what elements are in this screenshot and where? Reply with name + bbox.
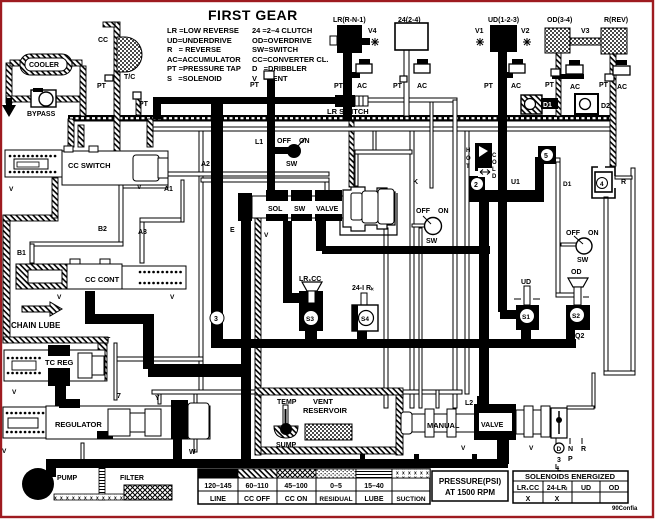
svg-text:3: 3 xyxy=(557,457,561,464)
wire main thin trunk xyxy=(153,127,616,131)
svg-text:SOLENOIDS ENERGIZED: SOLENOIDS ENERGIZED xyxy=(525,472,616,481)
svg-text:OD(3-4): OD(3-4) xyxy=(547,17,572,24)
wire manual valve right outline xyxy=(567,406,594,409)
svg-text:VENT: VENT xyxy=(313,397,333,406)
svg-text:2: 2 xyxy=(474,182,478,189)
circle 3 dribbler xyxy=(210,311,224,325)
svg-text:V: V xyxy=(12,389,17,396)
switch SW1 on xyxy=(250,82,310,168)
svg-text:D2: D2 xyxy=(601,103,610,110)
svg-text:D: D xyxy=(492,174,497,180)
svg-text:LR =LOW REVERSE: LR =LOW REVERSE xyxy=(167,26,239,35)
svg-text:L1: L1 xyxy=(255,139,263,146)
svg-text:CC OFF: CC OFF xyxy=(244,496,271,503)
wire sol valve hatched drop xyxy=(255,210,261,388)
svg-text:COOLER: COOLER xyxy=(29,62,59,69)
svg-text:4: 4 xyxy=(600,181,604,188)
svg-text:ON: ON xyxy=(438,208,449,215)
svg-text:CC ON: CC ON xyxy=(285,496,308,503)
svg-text:PT: PT xyxy=(545,82,555,89)
svg-text:S3: S3 xyxy=(306,316,314,323)
svg-text:PT: PT xyxy=(97,83,107,90)
svg-text:5: 5 xyxy=(544,153,548,160)
wire circle5 to riser link xyxy=(549,158,560,162)
svg-text:CC CONT: CC CONT xyxy=(85,275,120,284)
wire OD funnel riser xyxy=(556,160,560,296)
svg-text:V4: V4 xyxy=(368,28,377,35)
thick CC CONT drop xyxy=(85,291,95,318)
svg-text:PRESSURE(PSI): PRESSURE(PSI) xyxy=(439,477,502,486)
valve SOL SW VALVE assembly xyxy=(230,187,397,239)
swatch SUCTION x xyxy=(392,469,430,478)
wire Y W long horizontal xyxy=(152,390,462,394)
svg-text:K: K xyxy=(413,179,418,186)
svg-text:VALVE: VALVE xyxy=(316,206,339,213)
thick S1 drop xyxy=(521,328,531,341)
wire cooler right drop xyxy=(80,66,86,116)
wire A1 jog horizontal xyxy=(119,184,168,188)
thick S2 drop xyxy=(566,328,575,341)
wire R loop bottom xyxy=(604,371,635,375)
thick LR sol line xyxy=(343,52,352,121)
svg-text:FIRST GEAR: FIRST GEAR xyxy=(208,7,298,23)
wire Y drop xyxy=(158,394,161,404)
wire A2 junction horizontal xyxy=(117,357,203,361)
svg-text:LR(R-N-1): LR(R-N-1) xyxy=(333,17,366,24)
wire bypass horizontal xyxy=(6,96,82,102)
svg-text:PT: PT xyxy=(393,83,403,90)
svg-text:V: V xyxy=(529,445,534,452)
svg-text:UD(1-2-3): UD(1-2-3) xyxy=(488,17,519,24)
svg-text:AC: AC xyxy=(570,84,580,91)
node labels xyxy=(98,161,560,471)
swatch CC ON checker xyxy=(277,469,316,478)
svg-text:B1: B1 xyxy=(17,250,26,257)
thick CC CONT horizontal xyxy=(85,314,154,324)
wire A1 long horizontal xyxy=(154,172,329,176)
thick valve block stub xyxy=(497,438,509,464)
solenoid S3 with funnel xyxy=(299,276,323,331)
pressure psi box xyxy=(432,471,508,501)
svg-text:S4: S4 xyxy=(361,316,369,323)
svg-text:SW: SW xyxy=(286,161,298,168)
thick H3 horizontal xyxy=(213,339,576,348)
svg-text:3: 3 xyxy=(214,316,218,323)
wire B1 drop xyxy=(30,244,34,263)
svg-text:V: V xyxy=(461,445,466,452)
svg-text:SW=SWITCH: SW=SWITCH xyxy=(252,45,298,54)
svg-text:TC REG: TC REG xyxy=(45,358,74,367)
svg-text:SW: SW xyxy=(577,257,589,264)
torque converter xyxy=(97,37,149,108)
accumulator AC under UD xyxy=(484,59,525,90)
solenoid S4 xyxy=(352,285,378,331)
wire cooler left drop xyxy=(6,63,12,103)
svg-text:PT: PT xyxy=(250,82,260,89)
wire A2 vertical xyxy=(199,131,203,390)
svg-text:VALVE: VALVE xyxy=(481,422,504,429)
svg-text:ON: ON xyxy=(588,230,599,237)
valve CC CONT xyxy=(16,250,186,301)
svg-text:OD=OVERDRIVE: OD=OVERDRIVE xyxy=(252,36,312,45)
svg-text:N: N xyxy=(568,446,573,453)
wire B2 vertical xyxy=(119,184,123,245)
svg-text:PT: PT xyxy=(484,83,494,90)
svg-text:0–5: 0–5 xyxy=(330,483,342,490)
svg-text:15–40: 15–40 xyxy=(364,483,384,490)
svg-text:V2: V2 xyxy=(521,28,530,35)
svg-text:S =SOLENOID: S =SOLENOID xyxy=(167,74,222,83)
wire cc signal to sol valve xyxy=(349,121,354,187)
svg-text:D1: D1 xyxy=(563,181,572,188)
wire 7 vertical xyxy=(114,343,117,400)
cooler return arrow xyxy=(2,98,16,117)
gear position letters xyxy=(554,443,586,473)
thick TCREG to REG link xyxy=(55,378,66,406)
svg-text:SW: SW xyxy=(426,238,438,245)
clutch R dotted box xyxy=(601,28,627,54)
wire regulator vent stub xyxy=(81,443,84,460)
svg-text:D =DRIBBLER: D =DRIBBLER xyxy=(252,64,307,73)
wire OD funnel link xyxy=(556,293,576,297)
wire cc loop left vertical xyxy=(3,218,10,340)
wire tc line top cap xyxy=(103,22,115,27)
wire cc switch top drop xyxy=(147,119,153,147)
bypass valve xyxy=(27,88,56,118)
svg-text:45–100: 45–100 xyxy=(284,483,307,490)
trunk nub c xyxy=(472,454,477,460)
svg-text:CC SWITCH: CC SWITCH xyxy=(68,161,111,170)
circle 5 xyxy=(538,146,556,164)
svg-text:OD: OD xyxy=(609,485,620,492)
svg-text:A3: A3 xyxy=(138,229,147,236)
wire UD corridor vertical xyxy=(453,100,457,408)
dribbler D1 xyxy=(521,95,558,114)
wire A3 vertical xyxy=(140,218,144,263)
thick bar1 left stub xyxy=(153,97,161,119)
thick CC CONT drop2 xyxy=(143,314,154,369)
wire manual stub xyxy=(436,390,439,408)
wire K box left xyxy=(430,102,433,188)
circle 4 box xyxy=(592,167,626,198)
PT notch on L1 riser xyxy=(264,71,274,79)
wire LR switch out xyxy=(368,98,457,102)
wire SW3 link xyxy=(561,243,577,246)
wire valve feed jog c xyxy=(355,154,358,186)
LR switch black box xyxy=(327,95,369,116)
svg-text:V3: V3 xyxy=(581,28,590,35)
valve MANUAL xyxy=(401,404,582,452)
svg-text:24-I Rₖ: 24-I Rₖ xyxy=(352,285,374,292)
thick H2 horizontal xyxy=(322,246,490,254)
svg-text:V: V xyxy=(170,294,175,301)
svg-text:24 =2–4 CLUTCH: 24 =2–4 CLUTCH xyxy=(252,26,312,35)
reservoir enclosure xyxy=(255,388,403,455)
circle 2 xyxy=(469,176,485,193)
thick A-line vertical xyxy=(479,196,489,408)
svg-text:S2: S2 xyxy=(572,313,580,320)
svg-text:W: W xyxy=(189,449,196,456)
switch SW3 off xyxy=(566,230,599,264)
svg-text:7: 7 xyxy=(117,393,121,400)
thick U1 bottom link xyxy=(469,190,543,202)
thick L1 vertical with PT top xyxy=(267,79,275,194)
wire T drop to TC REG xyxy=(98,343,107,381)
svg-text:V: V xyxy=(2,448,7,455)
accumulator AC under R xyxy=(599,60,630,91)
thick SW1 stub xyxy=(274,147,290,154)
wire cooler stub right xyxy=(69,60,82,66)
wire A1 valve drop xyxy=(325,182,329,192)
svg-text:SOL: SOL xyxy=(268,206,283,213)
swatch LINE solid xyxy=(198,469,238,478)
svg-text:U1: U1 xyxy=(511,179,520,186)
wire valve feed jog b xyxy=(355,150,412,154)
pt notch on tc line xyxy=(105,75,113,81)
svg-text:PUMP: PUMP xyxy=(57,475,78,482)
accumulator AC under LR xyxy=(334,59,372,90)
swatch RESIDUAL dots xyxy=(316,469,356,478)
svg-text:MANUAL: MANUAL xyxy=(427,421,460,430)
svg-text:AT 1500 RPM: AT 1500 RPM xyxy=(445,488,495,497)
solenoid UD black box xyxy=(475,25,531,52)
svg-text:60–110: 60–110 xyxy=(246,483,269,490)
svg-text:S1: S1 xyxy=(522,314,530,321)
svg-text:LR SWITCH: LR SWITCH xyxy=(327,107,369,116)
wire cc switch bottom drop xyxy=(52,178,58,218)
svg-text:OFF: OFF xyxy=(416,208,431,215)
thick bar1 horizontal xyxy=(153,97,337,104)
svg-text:E: E xyxy=(230,227,235,234)
svg-text:CC: CC xyxy=(98,37,108,44)
svg-text:OD: OD xyxy=(571,269,582,276)
svg-text:A2: A2 xyxy=(201,161,210,168)
valve REGULATOR xyxy=(2,399,210,463)
svg-text:RESIDUAL: RESIDUAL xyxy=(319,496,352,503)
thick S3 feed vertical xyxy=(283,221,292,303)
svg-text:O: O xyxy=(492,160,497,166)
wire cooler stub left xyxy=(10,60,22,66)
wire valve drop b xyxy=(419,228,422,408)
pump xyxy=(22,468,78,500)
svg-text:LR₁CC: LR₁CC xyxy=(517,485,539,492)
valve TC REG xyxy=(4,345,105,396)
svg-text:R: R xyxy=(621,179,626,186)
thick pump link xyxy=(46,459,56,477)
thick L2 stub xyxy=(477,396,486,410)
accumulator AC under 24 xyxy=(393,59,430,90)
wire lube drop to filter xyxy=(99,466,105,500)
table row labels xyxy=(210,496,426,503)
wire R loop right vertical xyxy=(631,168,635,375)
thick S4 drop xyxy=(357,328,367,341)
wire circle4 link xyxy=(615,176,632,179)
svg-text:UD=UNDERDRIVE: UD=UNDERDRIVE xyxy=(167,36,232,45)
svg-text:PT: PT xyxy=(334,83,344,90)
filter xyxy=(120,475,172,500)
svg-text:AC: AC xyxy=(511,83,521,90)
wire W drop xyxy=(194,394,197,452)
thermal valve U1 xyxy=(466,143,572,188)
thick bottom trunk xyxy=(54,459,508,468)
solenoid S1 xyxy=(514,279,540,330)
swatch CC OFF diagonal xyxy=(238,469,277,478)
svg-text:L: L xyxy=(555,464,560,471)
svg-text:V: V xyxy=(264,232,269,239)
temp sump thermometer xyxy=(274,399,298,449)
svg-text:R = REVERSE: R = REVERSE xyxy=(167,45,221,54)
svg-text:120–145: 120–145 xyxy=(204,483,231,490)
thick H2 valve corner xyxy=(316,221,326,251)
svg-text:Y: Y xyxy=(155,395,160,402)
svg-text:T: T xyxy=(466,164,470,170)
wire B1 horizontal xyxy=(30,242,123,246)
trunk nub a xyxy=(360,454,365,460)
thick S1 corner xyxy=(500,310,518,319)
wire cc switch feed b xyxy=(78,125,84,147)
svg-text:AC: AC xyxy=(417,83,427,90)
svg-text:V1: V1 xyxy=(475,28,484,35)
svg-text:X: X xyxy=(526,496,531,503)
svg-text:OFF: OFF xyxy=(566,230,581,237)
svg-text:B2: B2 xyxy=(98,226,107,233)
thick S3 drop xyxy=(305,328,317,341)
wire A1 long horizontal b xyxy=(201,178,329,182)
table row pressures xyxy=(204,483,383,490)
svg-text:SUCTION: SUCTION xyxy=(396,496,426,503)
svg-text:PT =PRESSURE TAP: PT =PRESSURE TAP xyxy=(167,64,241,73)
svg-text:FILTER: FILTER xyxy=(120,475,144,482)
svg-text:CC=CONVERTER CL.: CC=CONVERTER CL. xyxy=(252,55,328,64)
thick S3 feed horizontal xyxy=(283,293,303,303)
wire SW2 link xyxy=(412,224,426,227)
svg-text:AC=ACCUMULATOR: AC=ACCUMULATOR xyxy=(167,55,241,64)
wire cc loop horiz to switch xyxy=(3,215,58,221)
svg-text:H: H xyxy=(466,148,470,154)
svg-text:UD: UD xyxy=(581,485,591,492)
pt notch right on tc line xyxy=(136,99,141,115)
svg-text:C: C xyxy=(492,153,497,159)
wire tc line vertical xyxy=(114,22,120,182)
wire K vertical xyxy=(410,131,414,408)
wire A1 drop xyxy=(164,168,168,186)
wire cc switch feed a xyxy=(68,119,74,147)
svg-text:T/C: T/C xyxy=(124,74,135,81)
wire valve feed jog a xyxy=(373,131,376,152)
svg-text:D: D xyxy=(557,446,562,453)
dribbler D2 xyxy=(575,94,610,114)
svg-text:LUBE: LUBE xyxy=(364,496,383,503)
svg-text:R(REV): R(REV) xyxy=(604,17,628,24)
solenoids energized table xyxy=(513,471,628,503)
thick UD sol line xyxy=(498,52,507,312)
svg-text:A1: A1 xyxy=(164,186,173,193)
svg-text:V: V xyxy=(57,294,62,301)
svg-text:Q2: Q2 xyxy=(575,333,584,340)
svg-text:UD: UD xyxy=(521,279,531,286)
svg-text:CHAIN LUBE: CHAIN LUBE xyxy=(11,321,61,330)
swatch LUBE lines xyxy=(356,469,392,478)
svg-text:AC: AC xyxy=(617,84,627,91)
svg-text:V: V xyxy=(9,186,14,193)
cooler body xyxy=(20,54,72,75)
wire converter trunk hatched xyxy=(68,115,616,122)
svg-text:L: L xyxy=(492,167,496,173)
svg-text:L2: L2 xyxy=(465,400,473,407)
svg-text:LINE: LINE xyxy=(210,496,226,503)
solenoid LR black box xyxy=(330,25,379,53)
svg-text:V: V xyxy=(137,184,142,191)
svg-text:R: R xyxy=(581,446,586,453)
wire suction line xyxy=(54,494,124,500)
wire R loop left vertical xyxy=(604,197,608,375)
svg-text:24-LRₗ: 24-LRₗ xyxy=(547,485,568,492)
thick E line vertical xyxy=(241,221,251,468)
pressure legend table grid xyxy=(198,469,430,504)
svg-text:REGULATOR: REGULATOR xyxy=(55,420,102,429)
svg-text:P: P xyxy=(568,456,573,463)
valve CC SWITCH xyxy=(5,146,168,193)
clutch OD dotted box xyxy=(545,28,601,53)
svg-text:90Confia: 90Confia xyxy=(612,506,638,512)
svg-text:T: T xyxy=(106,337,111,344)
svg-text:RESERVOIR: RESERVOIR xyxy=(303,406,348,415)
svg-text:D1: D1 xyxy=(543,102,552,109)
trunk nub b xyxy=(414,454,419,460)
wire corridor b vertical xyxy=(465,131,469,394)
wire R dotted vertical xyxy=(610,54,616,166)
solenoid 24 white box xyxy=(395,23,428,50)
thick dribbler3 vertical xyxy=(211,97,223,348)
vent reservoir xyxy=(303,397,352,440)
svg-text:O: O xyxy=(466,156,471,162)
svg-text:AC: AC xyxy=(357,83,367,90)
wire OD dotted drop xyxy=(556,52,561,116)
wire chain lube horizontal xyxy=(3,337,108,343)
wire R loop drop to valve xyxy=(592,373,595,408)
svg-text:OFF: OFF xyxy=(277,138,292,145)
top row labels xyxy=(333,17,628,24)
svg-text:SW: SW xyxy=(294,206,306,213)
wire 24 sol drop xyxy=(404,50,409,116)
switch SW2 off xyxy=(416,208,449,245)
svg-text:BYPASS: BYPASS xyxy=(27,111,56,118)
svg-text:PT: PT xyxy=(139,101,149,108)
svg-text:SUMP: SUMP xyxy=(276,442,297,449)
chain lube arrow xyxy=(11,302,111,344)
thick junction horizontal xyxy=(148,364,251,377)
wire valve drop a xyxy=(384,228,388,408)
thick circle5 drop xyxy=(535,157,544,202)
svg-text:PT: PT xyxy=(599,82,609,89)
accumulator AC under OD xyxy=(545,60,584,91)
svg-text:X: X xyxy=(555,496,560,503)
solenoid S2 with funnel xyxy=(566,269,590,340)
